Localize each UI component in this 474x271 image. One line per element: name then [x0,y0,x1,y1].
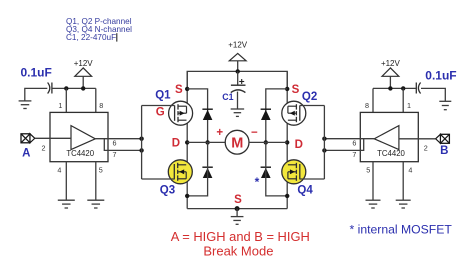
wire: bottom rail [187,208,287,210]
ground (pin 4 right) [396,199,411,201]
capacitor C-left 0.1uF [48,83,50,94]
svg-text:Q1: Q1 [155,90,171,102]
svg-text:4: 4 [57,166,61,175]
junction: pin6/gate bus (left) [139,137,143,141]
svg-text:* internal MOSFET: * internal MOSFET [350,223,453,237]
svg-text:+12V: +12V [381,59,401,68]
wire: right supply rail [373,87,416,89]
transistor Q4 (N-channel) [282,160,306,184]
wire: D3 to Q3 source [187,142,207,196]
svg-text:A = HIGH and B = HIGH: A = HIGH and B = HIGH [171,229,310,244]
wire: pin 1 lead (right U2) [402,88,404,112]
junction: Q2 D / motor node [285,140,289,144]
wire: pin 8 lead (right U2) [372,88,374,112]
junction: bottom rail/ground [235,206,240,211]
svg-text:Q4: Q4 [297,185,313,197]
junction: pin7/gate bus (right) [322,148,326,152]
ground (C1) [231,108,245,110]
capacitor C-right 0.1uF [415,83,417,94]
svg-text:7: 7 [352,150,356,159]
wire: C1 top lead [237,71,239,85]
transistor Q3 (N-channel) [168,160,192,184]
svg-text:8: 8 [365,101,369,110]
svg-text:5: 5 [99,166,103,175]
motor M [225,130,249,154]
svg-text:Break Mode: Break Mode [203,244,273,259]
svg-text:S: S [234,194,242,206]
junction: pin6/gate bus (right) [322,137,326,141]
wire: pin 4 lead (left U1) [65,162,67,201]
svg-text:8: 8 [99,101,103,110]
svg-text:Q3: Q3 [160,185,175,197]
junction: pin1/rail (right) [401,86,405,90]
svg-text:6: 6 [113,138,117,147]
svg-text:TC4420: TC4420 [66,149,94,158]
svg-text:0.1uF: 0.1uF [21,65,52,79]
ground (right cap) [439,100,451,102]
buffer triangle (right U2) [374,126,399,150]
op-amp U1 TC4420 (left driver) body [50,112,108,161]
svg-text:*: * [255,175,260,189]
transistor Q2 (P-channel) [282,101,306,125]
wire: motor - to D node [249,141,287,143]
svg-text:C1: C1 [222,92,233,102]
wire: D node to motor + [187,141,225,143]
svg-text:7: 7 [113,150,117,159]
svg-text:S: S [292,84,300,96]
svg-text:D: D [295,139,303,151]
svg-text:M: M [231,135,243,151]
ground (pin 4) [58,199,75,201]
junction: +12V/rail [81,86,85,90]
junction: Q3 source/diode [185,194,189,198]
input port A symbol [21,134,30,143]
wire: right gate bus [323,106,325,180]
wire: right cap to ground corner [421,88,445,101]
junction: Q2 S node [285,87,289,91]
capacitor C1 (electrolytic) [231,84,246,86]
wire: C1 bottom lead [237,92,239,109]
ground (left cap) [19,100,32,102]
wire: pin 4 lead (right U2) [402,162,404,201]
op-amp U2 TC4420 (right driver) body [360,112,418,161]
svg-text:6: 6 [352,138,356,147]
wire: right bridge vertical (S-D-S) [286,71,288,208]
junction: Q1 S node [185,87,189,91]
diode D3 (Q3 body diode) [202,166,212,168]
wire: pin 5 lead (left U1) [95,162,97,201]
wire: left cap to ground corner [25,88,48,100]
junction: Q4 source/diode [285,194,289,198]
svg-text:1: 1 [407,101,411,110]
svg-text:0.1uF: 0.1uF [425,68,456,82]
wire: pin 6 output (left U1) [95,138,141,140]
svg-text:−: − [251,127,258,139]
buffer triangle (left U1) [71,126,95,150]
diode D2 (Q2 body diode) [261,108,271,110]
ground (bottom rail) [231,216,244,218]
wire: bridge top rail [187,71,287,89]
junction: D2 anode node [264,140,268,144]
svg-text:+12V: +12V [228,40,248,49]
wire: left supply rail [52,87,96,89]
svg-text:4: 4 [408,166,412,175]
wire: S to diode D1 [187,89,207,142]
svg-text:B: B [440,145,448,157]
junction: +12V/rail (right) [388,86,392,90]
junction: pin7/gate bus (left) [139,148,143,152]
svg-text:TC4420: TC4420 [377,149,405,158]
junction: pin1/rail [64,86,68,90]
wire: pin 8 lead (left U1) [95,88,97,112]
svg-text:2: 2 [42,143,46,152]
svg-text:A: A [22,147,30,159]
wire: A to pin 2 [35,137,71,139]
wire: bottom ground stem [236,209,238,217]
junction: Q1 D / motor node [185,140,189,144]
svg-text:Q2: Q2 [302,91,317,103]
text cursor [116,33,118,41]
wire: bus to Q1 gate [142,105,175,107]
svg-text:C1, 22-470uF: C1, 22-470uF [66,33,116,42]
wire: pin 5 lead (right U2) [372,162,374,201]
svg-text:+12V: +12V [74,59,94,68]
transistor Q1 (P-channel) [169,101,193,125]
junction: +12V/top rail [236,69,240,73]
wire: pin 7 jog (left U1) [104,139,141,151]
wire: left bridge vertical (S-D-S) [186,71,188,208]
diode D1 (Q1 body diode) [202,108,212,110]
ground (pin 5 right) [366,199,381,201]
wire: pin 6 output (right U2) [324,138,374,140]
svg-text:+: + [216,127,223,139]
svg-text:G: G [156,107,165,119]
wire: bus to Q3 gate [142,178,175,180]
diode D4 (Q4 body diode) [261,166,271,168]
svg-text:2: 2 [424,143,428,152]
wire: pin 2 to B [399,138,436,140]
svg-text:S: S [175,84,183,96]
junction: D1 anode node [205,140,209,144]
ground (pin 5) [87,199,104,201]
svg-text:5: 5 [366,166,370,175]
svg-text:1: 1 [58,101,62,110]
input port B symbol [440,134,449,143]
wire: bus to Q2 gate [300,105,325,107]
svg-text:D: D [172,137,180,149]
wire: D4 to Q4 source [266,142,287,196]
wire: S to diode D2 [266,89,287,142]
wire: pin 7 jog (right U2) [324,139,363,151]
wire: left gate bus [141,106,143,180]
wire: bus to Q4 gate [300,178,325,180]
wire: pin 1 lead (left U1) [65,88,67,112]
